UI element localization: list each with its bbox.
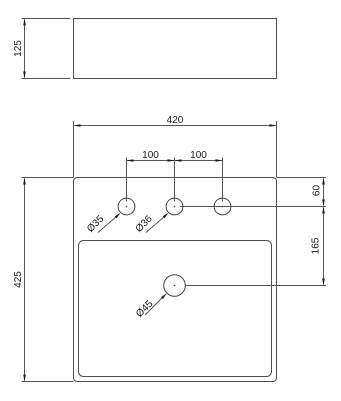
svg-text:125: 125	[13, 40, 24, 57]
dimension 165 line	[323, 208, 325, 285]
top edge extension to right	[277, 177, 327, 179]
svg-text:60: 60	[312, 185, 323, 197]
drain hole (Ø45)	[164, 275, 186, 297]
dimension 60 arrow down	[322, 200, 325, 207]
dimension 125 arrow down	[23, 72, 26, 79]
dimension 100 arrow right span right	[216, 159, 223, 162]
faucet hole 2 center mark	[174, 206, 176, 208]
dimension 100 line	[127, 160, 223, 162]
dimension 100 arrow left span left	[127, 159, 134, 162]
side view outline	[74, 19, 277, 79]
plan view basin inner outline	[79, 241, 272, 377]
drain centerline	[186, 285, 327, 287]
dimension 125 extension line top	[22, 18, 71, 20]
svg-text:100: 100	[142, 150, 159, 161]
dimension 100 extension line at hole 3	[222, 158, 224, 202]
svg-text:100: 100	[190, 150, 207, 161]
dimension 165 arrow up	[322, 207, 325, 214]
faucet hole 1 center mark	[126, 206, 128, 208]
dimension 425 arrow up	[23, 178, 26, 185]
faucet hole 2 (Ø36)	[166, 198, 183, 215]
leader Ø36 arrow	[163, 212, 169, 218]
plan view outer outline	[74, 178, 277, 382]
dimension 425 extension line bottom	[22, 381, 74, 383]
dimension 420 extension line left	[73, 121, 75, 178]
dimension 125 arrow up	[23, 19, 26, 26]
svg-text:Ø36: Ø36	[134, 213, 155, 234]
svg-text:Ø45: Ø45	[134, 298, 155, 319]
hole row centerline	[180, 206, 326, 208]
faucet hole 1 (Ø35)	[118, 198, 135, 215]
dimension 425 extension line top	[22, 177, 74, 179]
dimension 60 arrow up	[322, 178, 325, 185]
dimension 100 extension line at hole 2	[174, 158, 176, 202]
svg-text:Ø35: Ø35	[85, 213, 106, 234]
svg-text:425: 425	[13, 271, 24, 288]
faucet hole 3 center mark	[222, 206, 224, 208]
dimension 60 line	[323, 179, 325, 206]
dimension 100 arrow right span left	[175, 159, 182, 162]
svg-text:165: 165	[311, 237, 322, 254]
leader Ø45 line	[145, 297, 164, 316]
faucet hole 3	[214, 198, 231, 215]
dimension 420 extension line right	[276, 121, 278, 178]
leader Ø36 line	[146, 216, 165, 233]
dimension 420 arrow right	[270, 124, 277, 127]
drain hole center mark	[174, 285, 176, 287]
dimension 165 arrow down	[322, 279, 325, 286]
leader Ø35 arrow	[115, 213, 121, 219]
dimension 100 extension line at hole 1	[126, 158, 128, 202]
dimension 420 arrow left	[74, 124, 81, 127]
dimension 425 arrow down	[23, 375, 26, 382]
svg-text:420: 420	[167, 115, 184, 126]
leader Ø35 line	[98, 216, 117, 233]
dimension 125 line	[24, 20, 26, 78]
dimension 420 line	[75, 125, 276, 127]
dimension 425 line	[24, 179, 26, 381]
dimension 125 extension line bottom	[22, 78, 71, 80]
leader Ø45 arrow	[161, 293, 167, 299]
dimension 100 arrow left span right	[168, 159, 175, 162]
